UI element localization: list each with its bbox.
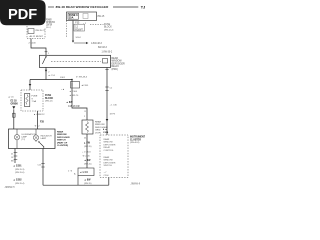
svg-text:F35: F35 — [75, 23, 80, 25]
svg-text:(TJ): (TJ) — [21, 139, 25, 141]
PDF badge — [0, 0, 46, 25]
svg-text:+◄: +◄ — [61, 88, 64, 91]
svg-text:► 8W-48-3: ► 8W-48-3 — [76, 76, 88, 79]
switch label right — [57, 131, 70, 148]
PDC dashed box right edge — [44, 29, 46, 39]
relay pin 1 tick — [45, 51, 48, 53]
relay control wire down — [106, 68, 108, 136]
indicator lamp label — [41, 135, 53, 141]
relay coil box — [103, 59, 108, 64]
svg-text:PDF: PDF — [8, 7, 37, 23]
svg-text:▲ C14: ▲ C14 — [48, 74, 56, 77]
bus junction dot — [71, 79, 73, 81]
svg-text:S301: S301 — [60, 77, 66, 79]
grid label — [95, 121, 108, 135]
fuse 9 symbol — [25, 94, 30, 107]
svg-text:(8W-12): (8W-12) — [45, 100, 53, 102]
bottom bus wire — [43, 184, 109, 186]
relay switch blade — [45, 56, 46, 57]
svg-text:◄ 8W-70: ◄ 8W-70 — [69, 94, 79, 97]
svg-text:LAMP: LAMP — [41, 137, 47, 140]
PDC dashed edge segment — [66, 21, 68, 39]
svg-text:WINDOW: WINDOW — [112, 61, 123, 63]
switch output wire label C16 — [38, 165, 43, 167]
cluster switch sense text — [104, 156, 116, 167]
svg-text:(8W-15-4): (8W-15-4) — [15, 183, 25, 185]
power distribution center label — [46, 19, 55, 29]
svg-text:▲ C6: ▲ C6 — [8, 96, 14, 99]
svg-text:(8W-15): (8W-15) — [84, 164, 92, 166]
svg-text:+ 1 C304: + 1 C304 — [82, 152, 91, 154]
svg-text:SWITCH: SWITCH — [57, 140, 66, 142]
svg-text:(8W-15): (8W-15) — [84, 183, 92, 185]
fuse F3 box — [67, 12, 97, 21]
fuse F3 value label — [68, 13, 79, 19]
svg-text:WINDOW: WINDOW — [57, 134, 68, 136]
instrument cluster label — [130, 137, 146, 145]
svg-text:RD/WT: RD/WT — [75, 29, 83, 31]
svg-text:SWITCH: SWITCH — [104, 165, 113, 167]
svg-text:◄ C306: ◄ C306 — [82, 155, 90, 158]
wire from fuse 3 — [72, 21, 74, 42]
svg-text:◄C301: ◄C301 — [81, 84, 89, 87]
svg-text:RELAY: RELAY — [112, 65, 120, 68]
svg-text:◄ G300: ◄ G300 — [80, 171, 89, 174]
relay stub labels — [48, 74, 66, 79]
svg-text:◄ C2: ◄ C2 — [34, 125, 40, 128]
ground connector label dark — [13, 165, 22, 168]
svg-text:CLUSTER): CLUSTER) — [57, 145, 68, 147]
panel lamps wire label dark — [11, 101, 19, 106]
svg-text:DEFOGGER: DEFOGGER — [112, 63, 125, 65]
indicator lamp symbol — [33, 135, 38, 140]
connector triangle left column — [12, 106, 15, 109]
wire PDC to relay elbow — [31, 39, 46, 56]
connector box on grid wire — [71, 82, 80, 89]
wire label box F35 12 RD — [74, 24, 85, 31]
rear window defogger grid box — [82, 120, 93, 134]
svg-text:CONTROL: CONTROL — [104, 150, 115, 152]
grid wire labels — [61, 88, 79, 97]
connector 2 C100 below PDC — [29, 43, 37, 45]
switch contact blade — [35, 140, 37, 141]
connector C2 on switch feed wire — [34, 125, 40, 128]
svg-text:FUSE: FUSE — [32, 96, 38, 98]
svg-text:8W-48-3: 8W-48-3 — [98, 47, 107, 49]
fuse block label — [104, 24, 114, 31]
wire name label — [66, 101, 73, 104]
switch feed wire label — [40, 122, 45, 124]
svg-text:J988W-9: J988W-9 — [131, 183, 141, 186]
svg-text:15A: 15A — [69, 17, 74, 20]
connector triangle on relay stub — [45, 70, 47, 72]
wire junction to grid — [71, 80, 73, 106]
svg-text:▼: ▼ — [84, 110, 86, 113]
wire to off-page arrow A — [74, 42, 86, 44]
svg-text:DEFOGGER: DEFOGGER — [57, 137, 70, 139]
svg-text:REAR: REAR — [104, 156, 110, 159]
svg-text:(PDC): (PDC) — [112, 69, 119, 71]
svg-text:(8W-15-6): (8W-15-6) — [15, 172, 25, 174]
svg-text:▲ G201: ▲ G201 — [13, 165, 22, 168]
illumination feed wire — [13, 109, 15, 129]
svg-text:E2 18: E2 18 — [11, 101, 18, 103]
svg-text:(8W-10-2): (8W-10-2) — [46, 27, 51, 29]
svg-text:C15 18 OR: C15 18 OR — [68, 106, 80, 108]
cluster relay control text — [104, 138, 116, 152]
switch feed wire — [37, 111, 39, 129]
relay internal dashed line — [51, 61, 101, 63]
svg-text:▲ 4 8W-12: ▲ 4 8W-12 — [34, 113, 46, 116]
svg-text:REAR: REAR — [104, 138, 110, 141]
ground splice box G300 — [78, 168, 94, 176]
svg-text:4 ▲: 4 ▲ — [103, 128, 107, 131]
terminal box inside fuse box — [83, 13, 88, 18]
illumination lamp symbol — [14, 135, 19, 140]
svg-text:REAR: REAR — [57, 131, 64, 134]
svg-text:▲ 8W: ▲ 8W — [84, 159, 91, 162]
svg-text:▲ 8W: ▲ 8W — [66, 101, 73, 104]
svg-text:7.5A: 7.5A — [32, 100, 37, 103]
svg-text:2 C100: 2 C100 — [29, 43, 37, 45]
svg-text:1 8W-30-2: 1 8W-30-2 — [102, 52, 113, 54]
ground wire from switch — [14, 149, 16, 164]
switch output wire — [42, 149, 44, 186]
fuse block label right — [45, 95, 54, 100]
below splice labels — [84, 179, 91, 182]
svg-text:(TOP): (TOP) — [95, 132, 101, 134]
inline connector on illumination wire — [13, 113, 16, 117]
riser to instrument cluster — [108, 178, 110, 186]
PDC dashed box left edge — [26, 26, 28, 39]
fuse 9 labels — [32, 96, 38, 104]
svg-text:2 ◄: 2 ◄ — [68, 170, 72, 173]
svg-text:S144: S144 — [76, 37, 82, 39]
relay output stub — [45, 67, 47, 79]
PDC component B labels — [30, 30, 47, 38]
grid ground wire — [86, 134, 88, 168]
svg-text:8W-15: 8W-15 — [98, 16, 105, 18]
svg-text:8W-48 REAR WINDOW DEFOGGER: 8W-48 REAR WINDOW DEFOGGER — [56, 5, 109, 9]
svg-text:REAR: REAR — [112, 57, 119, 60]
svg-text:+ 1 C30: + 1 C30 — [110, 105, 118, 107]
svg-text:DEFOGGER: DEFOGGER — [104, 144, 116, 146]
instrument cluster dashed box — [100, 135, 128, 178]
svg-text:(PART OF: (PART OF — [57, 141, 68, 144]
tick marks on ground wire — [14, 152, 18, 154]
elbow down to fuse block — [29, 80, 31, 91]
svg-text:GRID: GRID — [95, 130, 101, 132]
svg-text:POWER: POWER — [46, 19, 52, 21]
off-page arrow head — [86, 42, 88, 44]
svg-text:C204: C204 — [104, 175, 110, 177]
svg-text:A0 12 RD/WT: A0 12 RD/WT — [30, 35, 44, 38]
svg-text:▲ G202: ▲ G202 — [13, 179, 22, 182]
illumination lamp label — [21, 133, 36, 141]
connector C100 on fuse wire — [72, 41, 74, 43]
header right rule — [113, 6, 138, 8]
header left rule — [48, 6, 54, 8]
svg-text:(8W-40-8): (8W-40-8) — [130, 142, 140, 144]
svg-text:REAR: REAR — [95, 121, 101, 124]
svg-text:(8W-12-2): (8W-12-2) — [104, 29, 114, 31]
svg-text:▲ 8W: ▲ 8W — [84, 142, 91, 145]
fuse block output marks — [34, 113, 46, 116]
svg-text:TJ: TJ — [141, 6, 145, 10]
svg-text:BLOCK: BLOCK — [104, 27, 112, 29]
rear window defogger switch box — [9, 129, 56, 149]
svg-text:FUSE: FUSE — [45, 95, 52, 97]
panel lamps feed label column — [8, 96, 14, 99]
svg-text:(8W-15): (8W-15) — [84, 146, 92, 148]
svg-text:(8W-15-3): (8W-15-3) — [15, 169, 25, 171]
svg-text:▲ 8W: ▲ 8W — [84, 179, 91, 182]
svg-text:J988W-5: J988W-5 — [5, 186, 16, 189]
svg-text:CLUSTER: CLUSTER — [130, 139, 141, 141]
svg-text:FUSE: FUSE — [104, 24, 111, 26]
svg-text:18 PK: 18 PK — [110, 114, 116, 116]
grid element symbol — [86, 122, 89, 133]
fuse block dashed box — [21, 90, 43, 111]
riser to splice box — [77, 176, 79, 186]
main horizontal bus wire — [30, 79, 72, 81]
svg-text:8W-15 C1: 8W-15 C1 — [36, 30, 47, 32]
svg-text:OR/BK: OR/BK — [11, 103, 19, 105]
jog to grid — [72, 106, 87, 121]
svg-text:DEFOGGER: DEFOGGER — [104, 162, 116, 164]
svg-text:INSTRUMENT: INSTRUMENT — [130, 137, 146, 139]
PDC component box B — [28, 29, 34, 34]
svg-text:WINDOW: WINDOW — [104, 142, 113, 144]
rear window defogger relay box — [40, 55, 111, 67]
PDC dashed box bottom edge — [27, 38, 45, 40]
relay label — [112, 57, 125, 71]
off-page reference label A 8W-48-3 — [91, 42, 113, 54]
svg-text:WINDOW: WINDOW — [104, 160, 113, 162]
svg-text:RELAY: RELAY — [104, 146, 111, 149]
svg-text:WINDOW: WINDOW — [95, 124, 106, 126]
svg-text:A 8W-48-3: A 8W-48-3 — [91, 42, 103, 45]
fuse block dashed edge — [90, 24, 104, 26]
svg-text:◄ C304: ◄ C304 — [69, 90, 78, 93]
svg-text:C204: C204 — [103, 131, 109, 134]
